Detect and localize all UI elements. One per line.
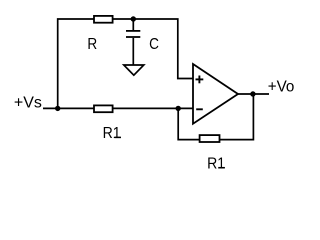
svg-text:+Vo: +Vo bbox=[268, 78, 295, 95]
svg-text:R1: R1 bbox=[103, 124, 121, 142]
svg-text:+Vs: +Vs bbox=[14, 95, 42, 112]
svg-text:R: R bbox=[87, 36, 97, 53]
svg-text:R1: R1 bbox=[207, 155, 225, 173]
svg-text:C: C bbox=[149, 36, 159, 53]
